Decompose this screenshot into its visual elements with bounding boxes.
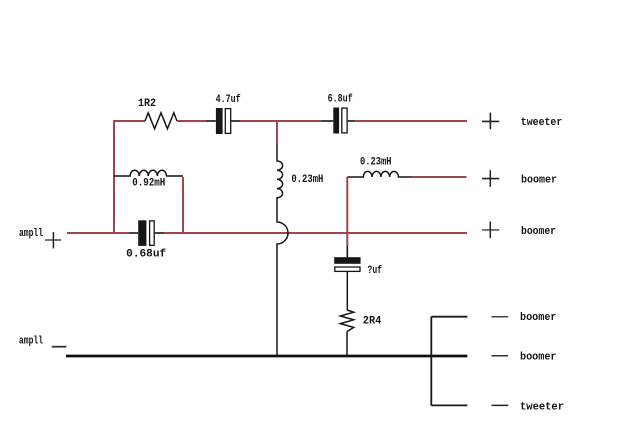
svg-text:?uf: ?uf <box>368 265 383 277</box>
wire node A drop from top rail (red) <box>276 121 278 144</box>
svg-text:ampll: ampll <box>19 228 43 240</box>
svg-text:0.92mH: 0.92mH <box>132 178 165 190</box>
terminal dash tweeter minus (row 3) <box>492 404 509 406</box>
resistor R2 value 2R4 (vertical) <box>340 310 353 332</box>
wire return bracket vertical <box>430 317 432 406</box>
svg-text:boomer: boomer <box>521 174 557 186</box>
wire return bracket top horizontal <box>431 316 467 318</box>
svg-text:0.23mH: 0.23mH <box>291 174 323 186</box>
wire boomer row 1 (red) <box>412 176 466 178</box>
svg-text:1R2: 1R2 <box>138 98 156 110</box>
wire middle rail left segment (red) <box>67 232 129 234</box>
wire middle rail right segment to boomer (red) <box>164 232 467 234</box>
wire right leg of L1 loop (red) <box>182 177 184 233</box>
terminal dash ampll minus <box>52 346 67 348</box>
svg-text:tweeter: tweeter <box>521 117 563 129</box>
terminal dash boomer minus (row 2) <box>492 355 509 357</box>
svg-text:ampll: ampll <box>19 336 43 348</box>
wire left vertical rail (red) <box>113 120 115 233</box>
capacitor C4 value ?uf (horizontal plates) <box>334 246 360 310</box>
terminal cross boomer plus (row 1) <box>482 170 499 187</box>
svg-text:boomer: boomer <box>520 352 557 364</box>
svg-text:boomer: boomer <box>521 226 556 238</box>
svg-text:6.8uf: 6.8uf <box>328 94 353 106</box>
terminal cross boomer plus (middle rail) <box>482 222 499 239</box>
capacitor C1 value 4.7uf <box>206 108 240 134</box>
svg-text:0.23mH: 0.23mH <box>360 156 392 168</box>
wire branch vertical at C4/R2 (red) <box>346 177 348 246</box>
svg-text:4.7uf: 4.7uf <box>216 94 241 106</box>
inductor L3 value 0.23mH (horizontal) <box>347 171 412 177</box>
terminal cross tweeter plus <box>482 113 499 130</box>
wire top rail between C1 and C2 (red) <box>240 120 320 122</box>
wire R2 to ground rail (black) <box>346 332 348 356</box>
capacitor C3 value 0.68uf <box>129 220 164 246</box>
wire top rail right segment to tweeter (red) <box>355 120 467 122</box>
wire top rail left segment (red) <box>114 120 145 122</box>
wire ground rail (black, thick) <box>66 355 467 358</box>
inductor L1 value 0.92mH <box>114 170 183 176</box>
inductor L2 value 0.23mH (vertical) with crossover hop <box>277 144 288 356</box>
terminal dash boomer minus (row 1) <box>492 316 509 318</box>
terminal cross ampll plus <box>45 232 61 248</box>
svg-text:tweeter: tweeter <box>520 402 564 414</box>
wire return bracket bottom horizontal <box>431 404 467 406</box>
svg-text:0.68uf: 0.68uf <box>126 249 166 261</box>
svg-text:boomer: boomer <box>520 312 557 324</box>
resistor R1 value 1R2 <box>145 113 177 129</box>
wire top rail between R1 and C1 (red) <box>177 120 206 122</box>
capacitor C2 value 6.8uf <box>320 108 355 134</box>
svg-text:2R4: 2R4 <box>363 315 382 327</box>
